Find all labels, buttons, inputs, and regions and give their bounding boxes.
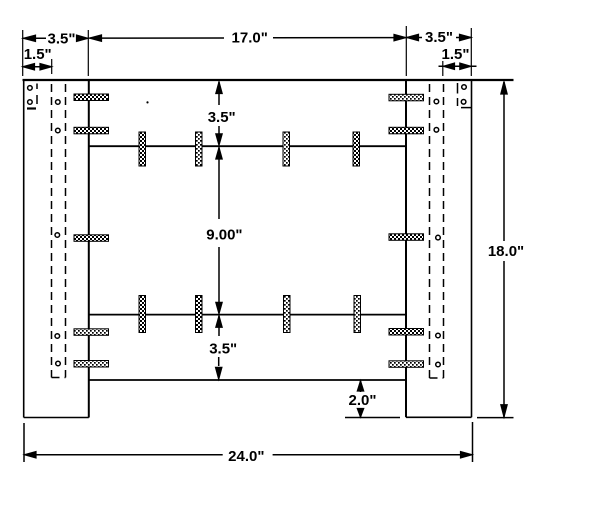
svg-text:24.0": 24.0" [228,448,264,465]
left screw hole 2 [28,100,33,105]
dimension 3.5in upper interior [208,82,236,146]
left screw hole 3 [56,100,61,105]
svg-text:3.5": 3.5" [209,341,237,358]
left cleat bar 2 [74,127,109,134]
left hidden line B (dashed) [65,84,67,378]
left cleat bar 3 [74,235,109,242]
extension line top right-inner [405,26,407,76]
bottom stretcher rail line [89,314,406,316]
dimension 1.5in top-left [23,46,52,70]
right detail tick marks [458,83,472,108]
right screw hole 6 [436,333,441,338]
left rail bottom edge [24,417,89,419]
dimension 24.0in bottom [25,448,473,465]
right screw hole 4 [434,128,439,133]
extension line top left-inner [87,30,89,76]
right screw hole 1 [462,85,467,90]
extension line 1.5 left [51,59,53,74]
top rail slat tick 1 [139,132,146,166]
right cleat bar 1 [389,94,424,101]
dimension 3.5in top-left [23,31,88,48]
scan speck [146,101,148,103]
left cleat bar 5 [74,361,109,368]
left hidden line A (dashed) [51,84,53,378]
svg-text:18.0": 18.0" [488,243,524,260]
left cleat bar 4 [74,329,109,336]
extension line bottom-left [23,423,25,462]
right cleat bar 3 [389,234,424,241]
dimension 3.5in lower interior [209,316,237,379]
right rail bottom edge [406,416,472,418]
svg-text:3.5": 3.5" [48,31,76,48]
top rail slat tick 2 [196,132,203,166]
extension line 1.5 right [442,61,444,76]
left screw hole 1 [28,86,33,91]
svg-text:1.5": 1.5" [24,46,52,63]
extension line bottom-right [472,422,474,462]
left detail tick marks [27,84,37,109]
bottom panel edge line [89,379,406,381]
right hidden line A (dashed) [429,84,431,378]
dimension 17.0in top [90,30,406,47]
dimension 3.5in top-right [407,29,471,46]
top panel edge line [23,79,514,81]
bottom rail slat tick 1 [139,296,146,333]
extension line top far-left [22,30,24,76]
right rail inner edge [405,80,407,417]
svg-text:2.0": 2.0" [349,392,377,409]
top stretcher rail line [89,145,406,147]
extension line top far-right [470,28,472,76]
left screw hole 7 [56,361,61,366]
svg-text:17.0": 17.0" [232,30,268,47]
left screw hole 4 [56,128,61,133]
right hidden bottom corner (dashed) [430,377,444,379]
right cleat bar 5 [389,361,424,368]
bottom rail slat tick 4 [354,296,361,333]
svg-text:1.5": 1.5" [442,46,470,63]
left screw hole 6 [55,334,60,339]
left rail inner edge [88,80,90,418]
svg-text:3.5": 3.5" [425,29,453,46]
right rail outer edge [471,80,473,417]
right screw hole 7 [436,362,441,367]
right cleat bar 4 [389,329,424,336]
svg-text:9.00": 9.00" [206,227,242,244]
top rail slat tick 4 [353,132,360,166]
right screw hole 2 [461,100,466,105]
dimension 18.0in right [477,82,524,418]
dimension 9.00in interior [206,148,242,314]
top rail slat tick 3 [283,132,290,166]
dimension 2.0in bottom [345,381,400,418]
right hidden line B (dashed) [443,84,445,378]
right cleat bar 2 [389,127,424,134]
left cleat bar 1 [74,94,109,101]
svg-text:3.5": 3.5" [208,109,236,126]
bottom rail slat tick 3 [284,296,291,333]
left hidden bottom corner (dashed) [52,377,66,379]
left rail outer edge [23,80,25,418]
left screw hole 5 [55,233,60,238]
right screw hole 5 [436,235,441,240]
dimension 1.5in top-right [439,46,477,70]
bottom rail slat tick 2 [196,296,203,333]
right screw hole 3 [434,99,439,104]
